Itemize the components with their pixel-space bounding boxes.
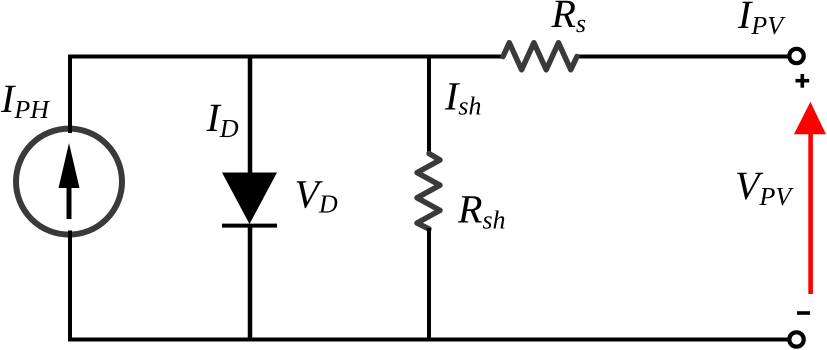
label R_sh [458, 196, 505, 229]
wire left branch upper segment [68, 55, 72, 134]
label I_PV [738, 2, 786, 35]
wire diode branch upper segment [248, 55, 253, 175]
wire diode branch lower segment [248, 226, 253, 342]
terminal node minus (bottom right) [789, 332, 803, 346]
wire left branch lower segment [68, 231, 72, 342]
plus sign [796, 74, 810, 88]
wire shunt branch lower segment [427, 228, 431, 342]
resistor Rsh [417, 154, 440, 230]
wire top rail left of Rs [68, 55, 504, 59]
label V_D [297, 181, 338, 212]
label I_sh [445, 83, 481, 115]
label V_PV [737, 173, 794, 206]
terminal node plus (top right) [789, 49, 803, 63]
wire shunt branch upper segment [427, 55, 431, 156]
resistor Rs [503, 43, 577, 70]
label I_PH [1, 86, 50, 118]
wire bottom rail [68, 338, 790, 342]
label I_D [206, 105, 238, 137]
diode D1 [222, 173, 277, 226]
wire top rail right of Rs [576, 55, 789, 59]
current source IPH [16, 129, 122, 235]
voltage arrow VPV [794, 102, 826, 294]
minus sign [797, 311, 810, 315]
label R_s [551, 1, 585, 33]
